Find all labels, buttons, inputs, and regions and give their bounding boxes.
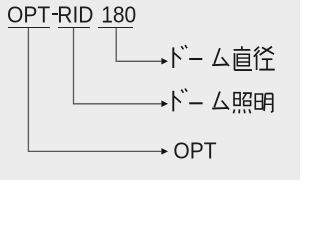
leader line from 180 xyxy=(116,28,161,61)
glyph ド (row 2) xyxy=(173,89,187,112)
arrowhead to OPT label xyxy=(161,148,168,155)
leader line from OPT xyxy=(28,28,161,151)
label OPT xyxy=(173,140,216,163)
glyph 明 xyxy=(255,94,272,113)
underline under OPT xyxy=(8,27,49,29)
glyph 径 xyxy=(254,47,275,70)
glyph ー (row 2) xyxy=(189,102,202,104)
glyph 直 xyxy=(234,46,252,70)
glyph ム (row 1) xyxy=(212,48,229,66)
glyph ー (row 1) xyxy=(189,58,202,60)
underline under RID xyxy=(58,27,91,29)
arrowhead to dome-illumination label xyxy=(161,101,168,108)
model code text "180" xyxy=(101,4,136,27)
glyph ド (row 1) xyxy=(173,45,187,68)
arrowhead to dome-diameter label xyxy=(161,58,168,65)
underline under 180 xyxy=(98,27,133,29)
model code text "RID" xyxy=(57,4,93,27)
glyph ム (row 2) xyxy=(212,92,229,110)
glyph 照 xyxy=(234,93,252,114)
model code text "OPT" xyxy=(7,4,50,27)
leader line from RID xyxy=(74,28,162,104)
dash between OPT and RID xyxy=(52,13,58,15)
